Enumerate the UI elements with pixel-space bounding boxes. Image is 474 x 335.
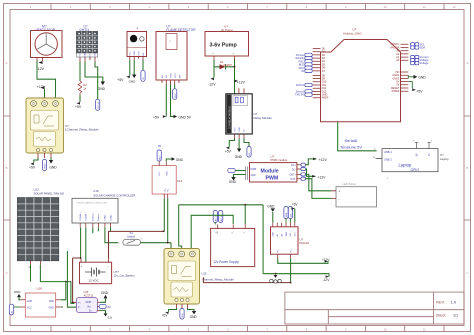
wire pump right down to relay module	[234, 60, 236, 94]
power flag +12V above relay1	[37, 85, 46, 100]
net ports SDA SCL above INA219	[284, 207, 293, 223]
svg-text:GND: GND	[190, 315, 198, 319]
ground GND left of U18	[14, 290, 21, 300]
wire bus maroon battery to ACS	[73, 258, 81, 302]
junction vin+	[290, 282, 292, 284]
svg-text:GND: GND	[129, 80, 137, 84]
controller bottom pin stubs	[80, 223, 110, 227]
svg-text:DHT11: DHT11	[98, 101, 100, 109]
voltage sensor box U18	[25, 287, 55, 317]
junction solar bus	[65, 281, 67, 283]
svg-text:C: C	[466, 271, 468, 275]
svg-text:LED: LED	[182, 313, 184, 318]
power flag +5V relay1	[29, 163, 36, 170]
svg-text:Laptop: Laptop	[399, 162, 412, 167]
svg-text:1Channel_Relay_Module: 1Channel_Relay_Module	[65, 128, 99, 132]
svg-text:DC+: DC+	[291, 165, 296, 167]
svg-text:GPIO: GPIO	[411, 168, 420, 172]
svg-text:GND: GND	[171, 73, 173, 78]
junction acs bus	[72, 302, 74, 304]
wire relay module to +5V	[229, 139, 234, 147]
svg-text:GND: GND	[98, 87, 106, 91]
relay module U? (black, 1ch)	[226, 94, 272, 134]
Arduino UNO U?	[321, 28, 401, 122]
svg-text:VCC: VCC	[295, 232, 297, 237]
svg-text:+: +	[212, 51, 214, 55]
ground GND pwm left	[229, 175, 246, 184]
wire switch to relay2	[141, 243, 172, 251]
wire INA219 Vin- to +12V	[278, 258, 328, 263]
ground GND right of Arduino	[408, 75, 426, 80]
wire U18 right pins	[61, 282, 66, 307]
svg-text:-12V: -12V	[37, 67, 45, 71]
svg-text:Tensiune 5V: Tensiune 5V	[340, 144, 362, 149]
ground with circles symbol	[270, 275, 282, 283]
wire flame detector to GND	[171, 85, 174, 117]
power flag -12V under ventilator	[37, 61, 45, 71]
wire IR pin1 to +5V	[129, 60, 131, 76]
net port PWM left	[228, 168, 246, 172]
power flag -12V right	[323, 275, 331, 282]
power flag -12V pump	[208, 78, 216, 87]
svg-text:SDA: SDA	[285, 212, 288, 217]
net port relay2	[180, 309, 184, 320]
laptop U? GPIO	[373, 141, 449, 172]
svg-text:-12V: -12V	[323, 278, 331, 282]
svg-text:SOLAR CHARGE CONTROLLER: SOLAR CHARGE CONTROLLER	[93, 193, 135, 197]
svg-text:GND: GND	[95, 51, 97, 56]
battery U?? 12VDC	[80, 262, 136, 284]
svg-text:U10: U10	[93, 189, 99, 193]
svg-text:USB 1: USB 1	[384, 150, 393, 154]
wire ventilator to relay terminal	[37, 61, 56, 101]
wire relay2 to +5V	[169, 308, 177, 312]
wire IR pin4 to port	[142, 60, 144, 70]
svg-text:GND: GND	[27, 300, 33, 303]
wire green bus B	[191, 215, 233, 250]
relay module top pin stubs	[239, 88, 244, 94]
ground GND right of U14	[166, 157, 183, 162]
svg-text:OUT-: OUT-	[290, 179, 296, 181]
wire green bus A (to power supply and down)	[179, 205, 263, 274]
frame ticks left and right	[4, 116, 471, 220]
flame detector pins	[162, 80, 179, 85]
wire flame detector to +5V	[165, 85, 167, 117]
Arduino right pin stubs	[401, 44, 409, 91]
wire PWM DC+ to +12V	[306, 159, 317, 165]
switch S1	[123, 231, 144, 245]
svg-text:GND: GND	[176, 158, 184, 162]
svg-text:SOLAR -: SOLAR -	[85, 212, 88, 220]
svg-text:Battery+: Battery+	[92, 212, 95, 220]
svg-text:+5V: +5V	[292, 203, 299, 207]
svg-text:+12V: +12V	[319, 158, 328, 162]
power flag +12V ina	[322, 258, 330, 263]
Arduino left pin stubs	[313, 49, 321, 98]
svg-text:AC_L: AC_L	[214, 215, 217, 221]
svg-text:LED Strips: LED Strips	[343, 182, 357, 186]
svg-text:IN4007: IN4007	[224, 63, 233, 67]
svg-text:EN: EN	[179, 75, 181, 78]
svg-text:VCC: VCC	[234, 127, 236, 132]
svg-text:TXD 5V: TXD 5V	[295, 93, 304, 97]
svg-text:+5V: +5V	[75, 105, 82, 109]
svg-text:1CH RELAY MODULE: 1CH RELAY MODULE	[228, 106, 231, 129]
svg-text:DHT11: DHT11	[296, 83, 305, 87]
svg-text:GND: GND	[101, 291, 109, 295]
svg-text:+12V: +12V	[322, 258, 330, 262]
svg-text:Channel_Relay_Module: Channel_Relay_Module	[202, 277, 234, 281]
net port IR	[141, 70, 145, 81]
U14 top pin stubs	[159, 161, 166, 165]
svg-text:VCC: VCC	[159, 171, 161, 176]
wire solar panel minus to bus	[40, 265, 74, 304]
svg-text:B1: B1	[158, 144, 162, 148]
svg-text:+5V: +5V	[29, 165, 36, 169]
svg-text:GND: GND	[239, 127, 241, 132]
DHT11 pins	[80, 57, 95, 62]
ground GND relay1	[49, 158, 57, 170]
wire maroon relay2 to INA vin+	[203, 277, 290, 282]
svg-text:+5V: +5V	[225, 149, 232, 153]
ventilator M?	[31, 25, 63, 58]
net port DHT11	[96, 99, 100, 110]
power flag +5V IR	[117, 76, 130, 83]
svg-text:+12V: +12V	[317, 176, 326, 180]
wire PWM OUT+ to LED strip	[306, 174, 332, 190]
svg-text:GND: GND	[14, 290, 21, 294]
svg-text:Switch: Switch	[127, 234, 136, 238]
svg-text:+: +	[28, 266, 30, 270]
net port B1 above U14	[157, 144, 162, 162]
ACS712 current sensor U16	[77, 290, 98, 312]
svg-text:IP-: IP-	[78, 307, 81, 309]
power flag +5V relay2	[162, 312, 169, 318]
svg-text:10: 10	[383, 327, 387, 331]
svg-text:GND 5V: GND 5V	[178, 116, 191, 120]
frame ticks bottom	[51, 326, 444, 332]
solar panel U12	[17, 187, 64, 260]
svg-text:A: A	[466, 61, 468, 65]
net port A2 at ACS	[99, 304, 111, 309]
svg-text:A2: A2	[107, 305, 111, 309]
LED strip pin stubs	[331, 191, 336, 199]
svg-text:GND: GND	[86, 300, 92, 304]
svg-text:GND: GND	[166, 171, 168, 176]
power supply top pin stubs	[218, 224, 246, 228]
svg-text:Vin: Vin	[87, 304, 91, 308]
solar panel pins	[31, 261, 41, 265]
net ports Current Voltage Voltage right of Arduino	[411, 55, 430, 65]
wire controller pin stubs short	[93, 227, 111, 233]
svg-text:GND: GND	[49, 165, 57, 169]
svg-text:LOAD -: LOAD -	[109, 214, 112, 221]
wire PWM DC- to +12V	[306, 169, 316, 176]
svg-text:SDA: SDA	[285, 232, 288, 237]
svg-text:AC_N: AC_N	[220, 215, 223, 221]
svg-text:USB 2: USB 2	[384, 158, 393, 162]
svg-text:3-6v Pump: 3-6v Pump	[210, 43, 238, 49]
wire DHT11 pin2 to GND	[85, 62, 103, 82]
power flag +12V pwm dc+	[313, 158, 327, 162]
svg-text:+5V: +5V	[416, 89, 423, 93]
net ports SCL SDA right of Arduino	[411, 42, 426, 49]
svg-text:GND: GND	[273, 231, 275, 236]
svg-text:SOLAR +: SOLAR +	[79, 211, 82, 220]
svg-text:12: 12	[452, 5, 456, 9]
svg-text:VCC: VCC	[27, 307, 32, 310]
svg-text:FDC: FDC	[175, 93, 177, 98]
INA219 bottom pin stubs	[278, 254, 291, 258]
net port A1 left of U18	[9, 304, 20, 315]
svg-text:+: +	[338, 190, 340, 194]
wire DHT11 pin4 to port	[95, 62, 98, 99]
svg-text:Sheet:: Sheet:	[436, 313, 447, 317]
svg-text:Arduino_UNO: Arduino_UNO	[343, 32, 362, 36]
svg-text:Serial&: Serial&	[345, 138, 358, 143]
svg-text:-: -	[108, 264, 109, 268]
relay1 bottom pins	[38, 153, 51, 158]
svg-text:GND: GND	[235, 155, 243, 159]
wire Arduino to laptop (Serial)	[338, 122, 377, 151]
svg-text:VDD: VDD	[49, 300, 54, 303]
svg-text:GND: GND	[134, 51, 136, 56]
ground GND IR	[129, 60, 137, 84]
svg-text:VCC: VCC	[130, 51, 132, 56]
power flag +5V DHT11	[75, 102, 82, 109]
svg-text:Battery-: Battery-	[97, 213, 100, 220]
svg-text:B: B	[6, 166, 8, 170]
wire U14 pin1 down to battery line	[163, 198, 165, 231]
pump pins	[214, 56, 235, 60]
svg-text:C: C	[6, 271, 8, 275]
svg-text:U14: U14	[177, 179, 183, 183]
svg-text:11: 11	[423, 5, 426, 9]
Arduino right pin labels	[390, 43, 400, 93]
svg-text:VENT: VENT	[45, 163, 47, 169]
DHT11 sensor U?	[77, 25, 98, 57]
svg-text:BUZ: BUZ	[159, 155, 161, 160]
ground GND 5V flame	[174, 115, 192, 120]
svg-text:SOLAR PANEL 30W ND: SOLAR PANEL 30W ND	[34, 192, 64, 196]
LED strips box	[336, 182, 377, 207]
svg-text:10: 10	[383, 5, 387, 9]
svg-text:GND: GND	[267, 204, 275, 208]
net ports Servo1 / TXD at Arduino	[295, 90, 312, 97]
svg-text:Vin-: Vin-	[278, 249, 280, 253]
svg-text:PWM: PWM	[266, 175, 279, 181]
net port VENT relay1	[42, 160, 46, 171]
buzzer box U14	[152, 166, 182, 194]
svg-text:PWM: PWM	[251, 169, 257, 171]
power flag +5V above INA219	[291, 203, 298, 223]
svg-text:IN-: IN-	[168, 188, 170, 191]
svg-text:INA219: INA219	[300, 241, 310, 245]
svg-text:12 VDC: 12 VDC	[88, 278, 99, 282]
wire controller load+ to switch	[105, 227, 118, 242]
INA219 U?	[271, 227, 310, 254]
title block	[285, 292, 464, 324]
wire U14 pin2 down to switch line	[167, 198, 169, 242]
ground GND relay module	[235, 139, 243, 160]
battery pin stubs	[81, 258, 109, 262]
12v power supply U?	[211, 228, 255, 266]
junction switch line	[167, 242, 169, 244]
U14 bottom pin stubs	[164, 194, 167, 198]
wire controller solar- down	[85, 227, 87, 281]
svg-text:LOAD +: LOAD +	[104, 213, 107, 221]
wire DHT11 pin1 down	[79, 62, 81, 81]
relay module bottom pins	[235, 134, 245, 139]
svg-text:11: 11	[423, 327, 426, 331]
svg-text:SDA: SDA	[420, 46, 426, 50]
wire ventilator pins	[37, 58, 43, 62]
wire INA219 Vin+ down	[290, 258, 292, 282]
net port FDC flame	[173, 85, 177, 100]
net ports D2-D7 left of Arduino	[295, 53, 312, 73]
svg-text:+5V: +5V	[117, 78, 124, 82]
svg-text:GND: GND	[418, 75, 426, 79]
relay2 bottom pins	[177, 304, 188, 309]
svg-text:GND: GND	[48, 307, 54, 310]
svg-text:+12V: +12V	[237, 80, 246, 84]
svg-text:OUT+: OUT+	[290, 175, 297, 177]
svg-text:~N: ~N	[215, 230, 219, 234]
svg-text:PWM module: PWM module	[271, 158, 288, 162]
svg-text:⏚: ⏚	[231, 230, 234, 234]
svg-text:IR: IR	[301, 69, 304, 73]
PWM right pin stubs and ports	[297, 165, 301, 179]
junction pump diode	[234, 66, 236, 68]
svg-text:REV:: REV:	[436, 300, 445, 305]
svg-text:-12V: -12V	[208, 82, 216, 86]
svg-text:ACS712: ACS712	[84, 293, 94, 297]
svg-text:Relay Module: Relay Module	[254, 116, 273, 120]
wire battery- maroon to junction	[109, 231, 165, 258]
svg-text:+5V: +5V	[162, 314, 169, 318]
wire green to -12V right	[263, 274, 329, 277]
IR sensor pins	[130, 57, 143, 61]
solar charge controller U10	[72, 189, 135, 223]
svg-text:5V: 5V	[415, 153, 418, 156]
svg-text:SOLAR CHARGE CONTROLLER: SOLAR CHARGE CONTROLLER	[77, 202, 108, 205]
power flag +5V flame	[153, 115, 166, 119]
ground GND DHT11	[98, 82, 106, 91]
svg-text:GND: GND	[251, 175, 256, 177]
flame detector U?	[156, 25, 196, 80]
relay module U? 1Channel_Relay_Module (yellow)	[26, 98, 99, 153]
INA219 top pin stubs	[273, 223, 295, 227]
wire PWM OUT- to LED strip	[306, 179, 332, 199]
svg-text:1.0: 1.0	[451, 300, 457, 305]
svg-text:+5V: +5V	[153, 116, 160, 120]
svg-text:12v_Car_Battery: 12v_Car_Battery	[114, 274, 136, 278]
svg-text:12v Power Supply: 12v Power Supply	[213, 260, 239, 264]
svg-text:AREF: AREF	[322, 97, 329, 100]
svg-text:Laptop: Laptop	[440, 157, 449, 161]
wire solar panel plus	[30, 265, 32, 282]
power flag +12V pwm dc-	[312, 175, 326, 180]
IR sensor	[127, 26, 147, 57]
svg-text:GND: GND	[229, 180, 237, 184]
svg-text:DC-: DC-	[292, 169, 296, 171]
wire bus green to ACS pin2	[67, 251, 76, 307]
svg-text:1/1: 1/1	[453, 313, 458, 317]
net port D2 relay module	[244, 139, 251, 158]
svg-text:IOREF: IOREF	[392, 90, 400, 93]
Arduino left pin labels	[322, 47, 329, 99]
PWM module U?	[246, 155, 297, 182]
svg-text:+: +	[233, 51, 235, 55]
resistor R2	[78, 81, 87, 95]
ground GND relay2	[188, 308, 198, 319]
power flag +12V on pump-relay wire	[235, 80, 246, 85]
power flag +5V right of Arduino	[408, 82, 423, 94]
net ports above power supply	[213, 211, 223, 225]
svg-text:VCC: VCC	[80, 52, 82, 57]
frame ticks top	[51, 4, 444, 10]
ground -12v below ACS	[100, 310, 113, 319]
wire R2 to +5V	[79, 95, 81, 102]
ground GND above INA219	[267, 204, 275, 222]
svg-text:U18: U18	[37, 287, 43, 291]
wire pump left to -12V	[213, 60, 215, 78]
junction battery line	[162, 231, 164, 233]
junction battery plus	[80, 257, 82, 259]
svg-text:U15: U15	[202, 272, 207, 276]
wire relay1 to +5V	[34, 158, 38, 163]
svg-text:A: A	[6, 61, 8, 65]
U18 pin stubs	[20, 300, 60, 307]
svg-text:Module: Module	[261, 169, 279, 175]
power flag +5V relay module	[225, 147, 232, 154]
svg-text:Voltage: Voltage	[420, 61, 429, 65]
junction gnd circles	[275, 273, 277, 275]
diode D1 IN4007	[214, 60, 235, 69]
pump U? 3-6v	[205, 25, 249, 56]
net port DHT11 at Arduino	[296, 83, 312, 87]
ground GND above right of ACS	[100, 291, 109, 303]
wire controller battery+ down to battery	[80, 227, 82, 258]
junction on bus A	[244, 204, 246, 206]
svg-text:B: B	[466, 166, 468, 170]
svg-text:-12v: -12v	[107, 316, 113, 320]
svg-text:VCC: VCC	[175, 73, 177, 78]
relay module U15 (yellow bottom)	[164, 249, 234, 305]
ACS712 right pin stubs	[98, 302, 101, 310]
